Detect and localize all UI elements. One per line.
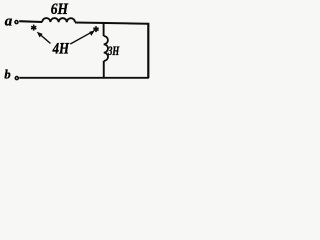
- svg-text:4H: 4H: [52, 40, 70, 57]
- wire top-right (coil to corner): [75, 23, 148, 24]
- arrow to left dot: [37, 32, 51, 44]
- wire 3H branch bottom stub: [103, 61, 105, 78]
- node b (terminal circle): [15, 77, 18, 80]
- wire right side: [147, 23, 149, 78]
- svg-text:a: a: [5, 14, 13, 30]
- svg-text:3H: 3H: [107, 43, 120, 58]
- dot marker (asterisk) right for L2: [93, 26, 98, 32]
- node a (terminal circle): [15, 21, 18, 24]
- wire bottom: [19, 77, 149, 79]
- arrow to right dot: [70, 30, 95, 44]
- dot marker (asterisk) left for L1: [31, 25, 36, 31]
- inductor L2 3H (vertical coil): [104, 36, 108, 61]
- wire top-left (a to coil): [19, 20, 42, 23]
- inductor L1 6H (coil): [42, 18, 75, 22]
- wire 3H branch top stub: [103, 23, 105, 36]
- svg-text:b: b: [4, 68, 10, 82]
- svg-text:6H: 6H: [51, 1, 69, 18]
